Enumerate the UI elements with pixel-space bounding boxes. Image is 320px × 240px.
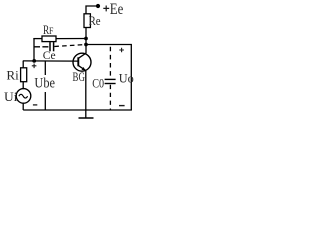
wire: corner down to Ri (22, 61, 24, 68)
label Ri (6, 69, 19, 83)
wire: Ube measurement line (44, 61, 46, 110)
wire: emitter down through rail to ground (85, 71, 87, 118)
wire: RF right lead to collector junction (56, 38, 86, 40)
wire: Ce right dashed lead to collector junction (54, 45, 84, 47)
svg-text:BG: BG (73, 70, 85, 84)
label Ui (4, 89, 18, 104)
svg-text:Ri: Ri (6, 69, 19, 83)
wire: collector vertical from Re down to transistor (85, 28, 87, 54)
label RF (43, 23, 54, 37)
source Ui (sine source) (16, 89, 31, 104)
label Ube (34, 75, 56, 92)
wire: input node to transistor base (23, 60, 79, 62)
ground (79, 117, 94, 119)
node: junction of Ce dashed lead / output with collector (84, 43, 88, 47)
resistor RF (42, 36, 56, 42)
wire: RF left lead (33, 38, 42, 40)
node: junction of RF lead with collector (84, 37, 88, 41)
wire: left vertical from RF/Ce to input node (33, 38, 35, 61)
wire: Ce left lead (dashed) (34, 46, 49, 48)
svg-text:Ee: Ee (110, 1, 124, 18)
wire: Ui bottom to rail (22, 103, 24, 110)
svg-text:F: F (49, 26, 54, 37)
wire: top supply wire from Re to +Ee terminal (86, 6, 97, 14)
transistor BG (73, 53, 91, 71)
wire: Ri to Ui source (22, 82, 24, 90)
resistor Ri (21, 68, 27, 82)
wire: dashed output branch upper (109, 47, 111, 79)
label +Ee (103, 1, 123, 18)
node: input node dot (32, 59, 36, 63)
svg-text:Ce: Ce (43, 50, 56, 62)
svg-text:Ube: Ube (34, 76, 55, 92)
capacitor C0 (105, 79, 116, 83)
label + (Ube polarity top) (32, 64, 37, 69)
label Ce (43, 50, 56, 62)
label C0 (92, 76, 104, 90)
label Uo (119, 72, 134, 86)
svg-text:Uo: Uo (119, 72, 134, 86)
svg-text:Ui: Ui (4, 89, 18, 104)
resistor Re (84, 14, 90, 28)
label Re (89, 14, 101, 28)
label + (Uo polarity top) (119, 48, 124, 53)
wire: dashed output branch lower (109, 85, 111, 110)
svg-text:C0: C0 (92, 76, 104, 90)
label - (Uo polarity bottom) (119, 105, 125, 107)
capacitor Ce (50, 42, 54, 51)
wire: output top wire from collector junction to right edge (86, 45, 131, 111)
wire: bottom ground rail (23, 109, 132, 111)
label BG (73, 70, 85, 84)
node: +Ee terminal dot (96, 4, 100, 8)
svg-text:Re: Re (89, 14, 101, 28)
label - (Ui/Ube polarity bottom) (33, 104, 37, 106)
